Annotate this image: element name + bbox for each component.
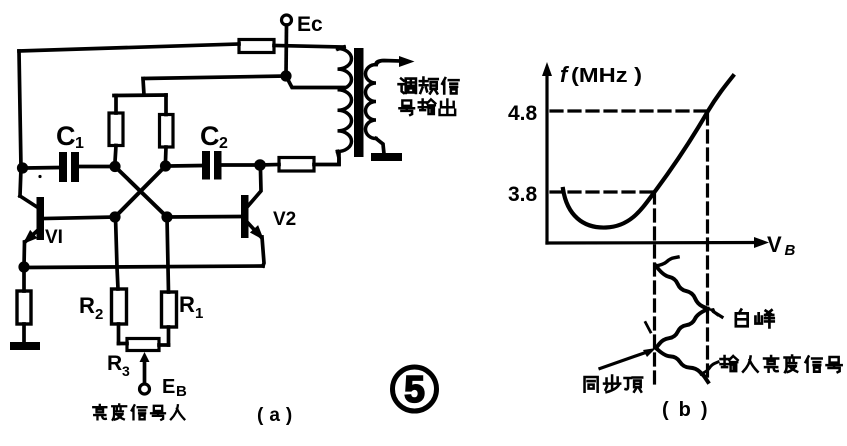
dashed vertical at sync level — [653, 192, 656, 385]
node Ec junction — [280, 70, 291, 81]
svg-text:2: 2 — [95, 306, 103, 323]
ground left — [10, 342, 40, 350]
svg-text:C: C — [200, 121, 220, 151]
svg-text:4.8: 4.8 — [508, 102, 538, 125]
svg-text:2: 2 — [219, 135, 228, 152]
wire Ec vertical — [284, 25, 288, 76]
transistor V2 — [241, 195, 249, 238]
node right collector — [160, 160, 171, 171]
stray mark — [646, 323, 651, 333]
wire V2 base — [167, 215, 241, 219]
dashed level 4.8 — [551, 109, 707, 112]
resistor R2 — [112, 289, 127, 324]
resistor emitter-left (unlabeled) — [22, 268, 26, 292]
resistor top-feedback (horizontal, unlabeled) — [239, 40, 274, 53]
text 亮度信号入 (luminance signal in) — [93, 405, 106, 419]
resistor R1 — [162, 292, 177, 327]
terminal Ec — [282, 15, 292, 25]
ground secondary — [371, 153, 402, 161]
capacitor C1 — [26, 166, 59, 170]
svg-text:R: R — [107, 352, 122, 375]
figure number 5 circled — [393, 367, 437, 411]
node V1 emitter — [18, 261, 29, 272]
svg-text:(b): (b) — [662, 399, 718, 421]
wire secondary to ground — [376, 139, 384, 155]
leader to input-luminance label — [701, 362, 718, 374]
svg-text:1: 1 — [75, 135, 84, 152]
waveform input luminance signal — [656, 257, 678, 266]
wiper arrow of R3 — [143, 360, 147, 384]
resistor collector-load right (unlabeled) — [164, 95, 168, 115]
arrow to sync tip — [600, 352, 647, 369]
capacitor C2 — [170, 164, 202, 168]
wire feedback y78 — [143, 76, 286, 95]
svg-text:B: B — [785, 242, 796, 259]
resistor output-coupling (horizontal, unlabeled) — [260, 163, 279, 167]
text 调频信 (FM signal...) — [399, 79, 416, 93]
wire top rail right segment — [274, 46, 344, 48]
wire bottom emitter rail — [24, 266, 263, 268]
node C1-left junction — [17, 162, 28, 173]
svg-text:V2: V2 — [273, 209, 296, 230]
transformer core — [354, 48, 364, 157]
ink speck — [38, 175, 41, 178]
wire secondary output with arrow — [376, 61, 401, 65]
node left collector — [109, 161, 120, 172]
transformer secondary winding — [366, 65, 377, 139]
text 白峰 (white peak) — [736, 310, 748, 327]
wire cross-couple diagonal R-to-L — [115, 166, 166, 217]
svg-text:(a): (a) — [257, 405, 298, 426]
svg-text:R: R — [79, 293, 95, 318]
wire cross-couple diagonal L-to-R — [115, 167, 167, 218]
wire base-left down to R2 — [116, 217, 119, 289]
f axis (vertical) — [545, 72, 548, 243]
wire left vertical rail — [19, 51, 21, 196]
dashed vertical at white-peak level — [706, 113, 709, 380]
transistor V1 — [37, 197, 45, 240]
svg-text:V: V — [767, 232, 782, 257]
text 输入亮度信号 (input luminance signal) — [721, 356, 738, 371]
svg-text:3.8: 3.8 — [508, 183, 538, 206]
wire base-right down to R1 — [167, 217, 169, 292]
wire top rail left segment — [19, 44, 239, 51]
svg-text:VI: VI — [45, 227, 63, 248]
svg-text:B: B — [176, 383, 187, 400]
dashed level 3.8 — [551, 190, 652, 193]
node base-right — [161, 211, 172, 222]
resistor collector-load left (unlabeled) — [114, 96, 118, 114]
svg-text:Ec: Ec — [297, 13, 323, 36]
text 号输出 (...output) — [399, 100, 414, 115]
svg-text:3: 3 — [122, 363, 130, 379]
svg-text:(MHz ): (MHz ) — [571, 65, 642, 87]
wire transformer tap from Ec node — [286, 76, 344, 88]
VB axis (horizontal) — [547, 241, 758, 245]
transformer T primary winding — [338, 47, 344, 49]
svg-text:C: C — [56, 121, 76, 151]
node collector-output — [254, 159, 266, 171]
svg-text:R: R — [179, 292, 195, 317]
terminal EB — [140, 384, 150, 394]
svg-text:E: E — [162, 376, 175, 398]
resistor R3 potentiometer body — [119, 342, 128, 346]
text 同步顶 (sync tip) — [585, 377, 598, 392]
wire collector-load top bus y95 — [114, 93, 166, 97]
curve f vs VB — [563, 76, 733, 228]
svg-text:5: 5 — [404, 369, 425, 410]
svg-text:1: 1 — [195, 305, 203, 322]
wire V1 base — [44, 217, 115, 219]
node base-left — [109, 211, 120, 222]
leader white peak — [714, 312, 722, 317]
